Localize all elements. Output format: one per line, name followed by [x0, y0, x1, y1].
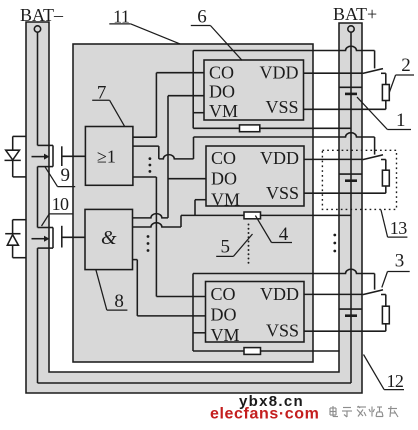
svg-text:10: 10 — [52, 194, 69, 214]
svg-text:VSS: VSS — [265, 97, 298, 117]
svg-text:&: & — [101, 227, 117, 249]
svg-text:CO: CO — [211, 148, 236, 168]
svg-text:VM: VM — [211, 189, 240, 209]
svg-text:8: 8 — [114, 291, 124, 312]
svg-text:VM: VM — [211, 325, 240, 345]
svg-text:2: 2 — [401, 55, 411, 76]
svg-text:CO: CO — [211, 284, 236, 304]
svg-text:VDD: VDD — [260, 62, 299, 82]
svg-text:4: 4 — [279, 224, 289, 245]
svg-text:DO: DO — [211, 305, 237, 325]
svg-text:5: 5 — [221, 237, 231, 258]
svg-text:3: 3 — [395, 251, 405, 272]
svg-text:6: 6 — [197, 7, 207, 28]
svg-text:VSS: VSS — [266, 183, 299, 203]
svg-text:1: 1 — [396, 110, 406, 131]
svg-text:BAT+: BAT+ — [333, 4, 377, 24]
svg-text:DO: DO — [209, 82, 235, 102]
svg-text:VSS: VSS — [266, 321, 299, 341]
svg-text:9: 9 — [61, 165, 71, 186]
svg-text:≥1: ≥1 — [97, 147, 116, 167]
svg-text:12: 12 — [387, 371, 404, 391]
svg-text:VDD: VDD — [260, 284, 299, 304]
svg-text:BAT–: BAT– — [20, 5, 64, 25]
svg-text:VDD: VDD — [260, 148, 299, 168]
svg-text:elecfans·com: elecfans·com — [210, 406, 319, 423]
svg-text:13: 13 — [390, 218, 407, 238]
svg-text:DO: DO — [211, 169, 237, 189]
svg-text:CO: CO — [209, 62, 234, 82]
svg-text:VM: VM — [209, 101, 238, 121]
